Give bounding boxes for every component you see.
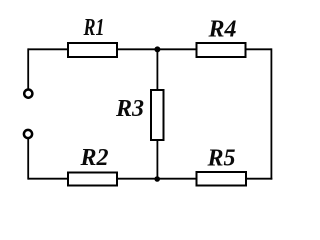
- svg-text:R3: R3: [115, 96, 144, 122]
- wire left lower vertical: [27, 139, 29, 180]
- resistor R2: [68, 173, 117, 186]
- wire middle vertical: [156, 49, 158, 178]
- resistor R1: [68, 43, 117, 57]
- terminal upper: [24, 90, 32, 98]
- svg-text:R5: R5: [206, 145, 235, 171]
- wire top horizontal: [28, 48, 271, 50]
- wire right vertical: [270, 48, 272, 179]
- node junction top: [154, 46, 160, 52]
- resistor R4: [197, 43, 246, 57]
- wire left upper vertical: [27, 48, 29, 89]
- terminal lower: [24, 130, 32, 138]
- wire bottom horizontal: [28, 178, 272, 180]
- svg-text:R2: R2: [79, 145, 108, 171]
- svg-text:R1: R1: [83, 15, 105, 41]
- resistor R3: [151, 90, 164, 140]
- node junction bottom: [154, 176, 160, 182]
- resistor R5: [197, 172, 247, 186]
- svg-text:R4: R4: [207, 16, 236, 42]
